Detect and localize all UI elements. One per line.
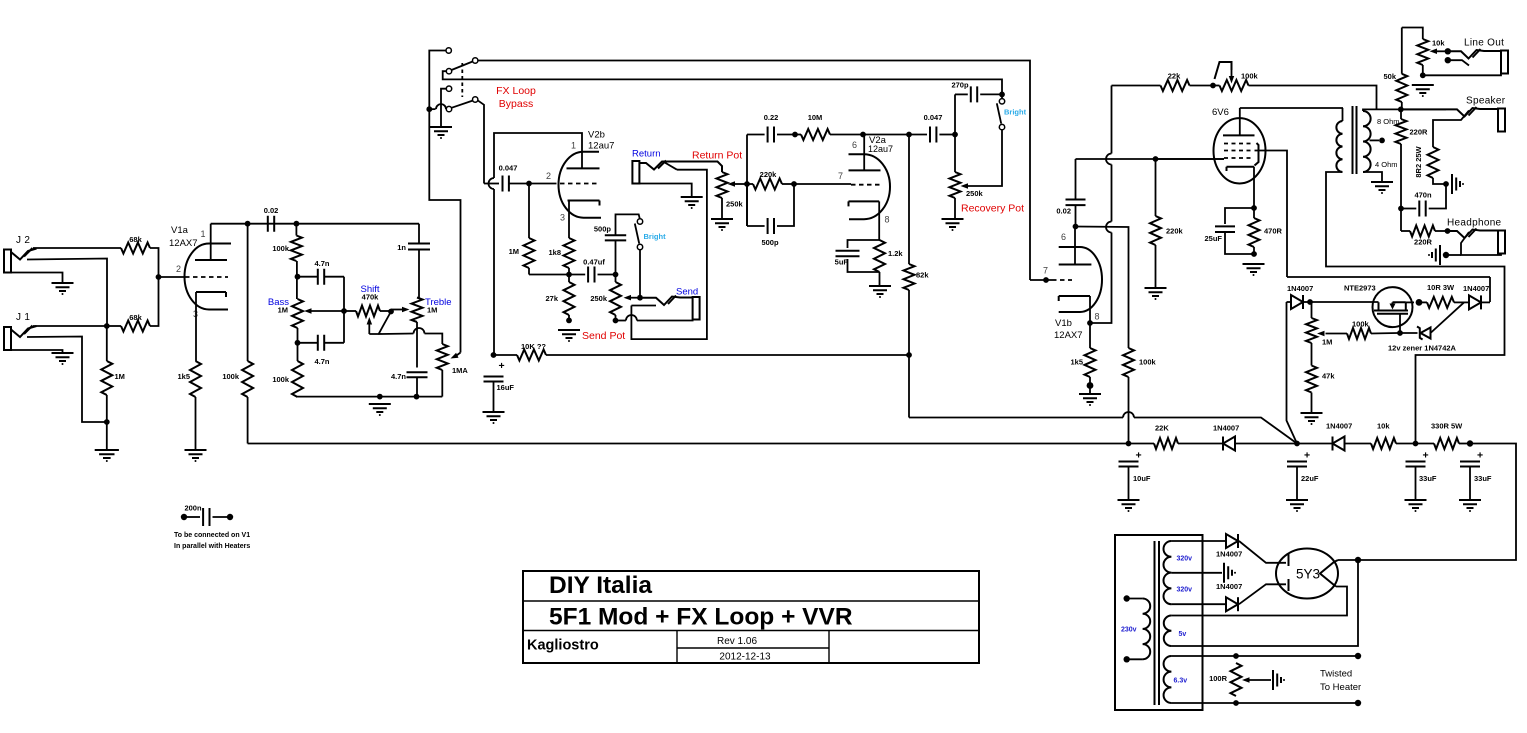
ground 220k	[1145, 288, 1167, 296]
wire V1b cathode	[1089, 296, 1091, 323]
ground send pot	[558, 330, 580, 338]
wire return sleeve to ground	[639, 184, 691, 197]
transformer OT primary	[1342, 108, 1344, 121]
node return wiper	[744, 181, 750, 187]
node 33uF 1	[1413, 441, 1419, 447]
svg-text:470k: 470k	[362, 293, 380, 302]
wire B+ preamp feed node	[491, 352, 497, 358]
OT core	[1353, 106, 1357, 174]
node 10k ground	[1420, 72, 1426, 78]
svg-text:2: 2	[546, 171, 551, 181]
resistor 27k	[568, 275, 570, 283]
capacitor 1n	[418, 224, 420, 243]
node 22uF / raw B+	[1294, 441, 1300, 447]
node 1k5 ground	[1087, 382, 1094, 389]
svg-text:+: +	[1477, 450, 1483, 462]
svg-text:+: +	[1136, 450, 1142, 462]
capacitor 0.22	[747, 134, 765, 136]
svg-text:1N4007: 1N4007	[1326, 422, 1352, 431]
wire 68k bottom to grid node	[150, 277, 159, 326]
wire bass bottom	[297, 328, 299, 343]
wire 1MA bottom to bus	[441, 370, 443, 397]
wire J2 sleeve to ground	[11, 273, 63, 283]
node 270p / bright2	[999, 92, 1005, 98]
resistor 8R2 25W dummy load	[1428, 147, 1439, 178]
transformer PT case	[1115, 535, 1203, 710]
svg-text:1M: 1M	[427, 306, 437, 315]
wire to bass node	[296, 261, 298, 299]
switch FX bypass contact T3	[446, 69, 451, 74]
svg-text:6.3v: 6.3v	[1174, 678, 1188, 685]
node MOSFET drain	[1416, 299, 1423, 306]
svg-text:220R: 220R	[1410, 128, 1429, 137]
wire V1a cathode to 1k5	[195, 292, 197, 361]
svg-text:4.7n: 4.7n	[314, 357, 329, 366]
svg-text:1N4007: 1N4007	[1216, 582, 1242, 591]
svg-text:Bright: Bright	[644, 232, 667, 241]
wire J2 shorting contact down to J1 node	[27, 259, 107, 327]
switch FX bypass contact B1	[446, 86, 451, 91]
capacitor 4.7n (upper)	[318, 269, 324, 285]
6V6 screen grids dashed	[1224, 144, 1254, 151]
PT 5v winding	[1164, 616, 1172, 647]
potentiometer Treble 1M	[412, 298, 423, 323]
node 6V6 cathode network top	[1251, 205, 1257, 211]
wire 4.7n caps junction vertical	[343, 277, 345, 343]
svg-text:Headphone: Headphone	[1447, 218, 1502, 229]
node send pot bottom	[613, 318, 619, 324]
wire wiper node vertical	[746, 135, 748, 227]
resistor 470R	[1249, 218, 1260, 247]
wire MOSFET drain out	[1406, 301, 1414, 303]
switch FX bypass contact B3	[446, 106, 451, 111]
svg-text:10k: 10k	[1432, 39, 1445, 48]
svg-text:1MA: 1MA	[452, 366, 468, 375]
node bass wiper	[341, 308, 347, 314]
svg-text:16uF: 16uF	[497, 383, 515, 392]
wire diode to 5Y3 plate 1	[1239, 541, 1286, 563]
PT HV secondary	[1164, 541, 1172, 604]
node recovery pot top	[952, 132, 958, 138]
node send pot top	[613, 272, 619, 278]
wire return ring diagonal	[663, 162, 677, 170]
1MA wiper from FX bypass	[457, 353, 461, 356]
wire 5v bottom to output node	[1171, 560, 1358, 646]
svg-text:5v: 5v	[1179, 631, 1187, 638]
svg-text:5F1 Mod + FX Loop + VVR: 5F1 Mod + FX Loop + VVR	[549, 604, 853, 631]
ground 33uF 1	[1405, 500, 1427, 508]
Return pot wiper	[733, 183, 747, 185]
wire line out ring	[1448, 60, 1469, 65]
capacitor 4.7n (lower)	[318, 335, 324, 351]
capacitor 10uF	[1119, 462, 1139, 467]
svg-text:Rev 1.06: Rev 1.06	[717, 636, 757, 647]
svg-text:8: 8	[885, 215, 890, 225]
wire treble node to 1MA top	[379, 333, 414, 336]
node V2b grid	[526, 181, 532, 187]
potentiometer 10k (line out)	[1417, 39, 1428, 65]
Send wiper arrow	[629, 297, 640, 299]
svg-text:220k: 220k	[1166, 227, 1184, 236]
wire 6V6 plate to OT primary	[1240, 107, 1343, 109]
title block	[523, 571, 979, 663]
wire B+ preamp feed to 82k node	[546, 354, 909, 356]
ground 10uF	[1118, 500, 1140, 508]
potentiometer Shift 470k	[344, 310, 356, 312]
node 0.02 / 100k tone	[294, 221, 300, 227]
svg-text:V2b: V2b	[588, 130, 605, 141]
resistor 10R 3W	[1419, 301, 1427, 303]
svg-text:Return Pot: Return Pot	[692, 150, 742, 162]
resistor 10K ??	[494, 354, 518, 356]
svg-text:470R: 470R	[1264, 227, 1283, 236]
wire V2a plate up	[863, 135, 865, 171]
resistor 1k5 (V1a cathode)	[190, 361, 201, 397]
node headphone tip	[1445, 228, 1451, 234]
svg-text:100k: 100k	[272, 375, 290, 384]
wire B+ to V2b plate (hump over grid wire)	[493, 189, 495, 355]
switch gang dashed link	[461, 63, 463, 97]
wire B1 to ground	[441, 89, 446, 126]
svg-text:68k: 68k	[129, 313, 142, 322]
potentiometer Send 250k	[610, 282, 621, 315]
node V1b plate	[1073, 224, 1079, 230]
capacitor 33uF (1)	[1406, 462, 1426, 467]
wire grid into tube	[1030, 279, 1052, 281]
wire OT primary bottom to VVR B+	[1326, 172, 1505, 444]
resistor 82k	[906, 132, 912, 138]
wire 6V6 grid entry	[1156, 158, 1225, 160]
svg-text:J 2: J 2	[16, 235, 30, 246]
svg-text:68k: 68k	[129, 235, 142, 244]
wire grid to tube	[794, 183, 851, 185]
node send wiper	[637, 295, 643, 301]
ground 6V6 cathode	[1243, 264, 1265, 272]
svg-text:100k: 100k	[1352, 320, 1370, 329]
wire V1b plate to 100k load	[1076, 227, 1129, 349]
svg-text:1M: 1M	[278, 306, 288, 315]
svg-text:470n: 470n	[1414, 191, 1432, 200]
svg-text:1M: 1M	[509, 247, 519, 256]
node line out tip	[1445, 48, 1451, 54]
resistor 1k8 (V2b cathode)	[564, 238, 575, 268]
capacitor 0.02 (coupling)	[1075, 159, 1077, 200]
capacitor 0.047 (V2b grid)	[484, 183, 499, 185]
svg-text:Speaker: Speaker	[1466, 96, 1506, 107]
svg-text:FX Loop: FX Loop	[496, 85, 536, 97]
wire HV bottom to diode	[1171, 603, 1226, 605]
svg-text:0.47uf: 0.47uf	[583, 258, 605, 267]
node 27k bottom	[566, 318, 572, 324]
wire J1 tip to node	[33, 325, 107, 327]
node secondary / 50k / speaker	[1398, 107, 1404, 113]
svg-text:1k5: 1k5	[177, 372, 190, 381]
svg-text:6: 6	[852, 140, 857, 150]
svg-text:12AX7: 12AX7	[1054, 330, 1083, 341]
node bus ground tap	[377, 394, 383, 400]
capacitor 25uF	[1225, 208, 1254, 224]
svg-text:Return: Return	[632, 149, 661, 160]
capacitor 16uF	[484, 377, 504, 382]
wire V2b cathode	[568, 201, 570, 239]
svg-text:To be connected on V1: To be connected on V1	[174, 532, 250, 539]
svg-text:7: 7	[1043, 266, 1048, 276]
resistor 50k (line out)	[1401, 28, 1403, 74]
wire VVR top bus	[1287, 276, 1490, 278]
svg-text:320v: 320v	[1177, 556, 1193, 563]
svg-text:1.2k: 1.2k	[888, 249, 903, 258]
resistor 1.2k (V2a cathode)	[874, 240, 885, 272]
svg-text:1N4007: 1N4007	[1213, 424, 1239, 433]
wire V1a plate up	[210, 224, 212, 260]
svg-text:22K: 22K	[1155, 424, 1169, 433]
potentiometer Recovery 250k	[950, 172, 961, 198]
wire 1k5 to ground	[195, 397, 197, 449]
svg-text:3: 3	[560, 213, 565, 223]
Shift wiper	[368, 322, 370, 334]
ground tone stack	[369, 404, 391, 412]
node gate	[1397, 330, 1403, 336]
wire V1b plate up	[1074, 227, 1076, 265]
svg-text:Line Out: Line Out	[1464, 38, 1504, 49]
5Y3 filament	[1320, 560, 1338, 587]
wire 6.3v top heater	[1171, 655, 1358, 657]
svg-text:In parallel with Heaters: In parallel with Heaters	[174, 543, 250, 550]
wire 6V6 cathode down	[1253, 167, 1255, 208]
wire 100k load to B+ rail	[247, 397, 249, 444]
ground V1a cathode	[185, 450, 207, 458]
capacitor 5uF	[848, 240, 880, 248]
svg-text:1M: 1M	[1322, 338, 1332, 347]
svg-text:0.02: 0.02	[1056, 207, 1071, 216]
wire V1a grid	[159, 276, 185, 278]
1M wiper	[1317, 331, 1325, 336]
svg-text:10K ??: 10K ??	[521, 342, 546, 351]
svg-text:+: +	[499, 360, 505, 372]
resistor 47k	[1306, 366, 1317, 393]
100R wiper to ground	[1247, 679, 1271, 681]
svg-text:+: +	[1304, 450, 1310, 462]
svg-text:0.047: 0.047	[499, 164, 518, 173]
wire 10M to V2a plate node	[830, 134, 927, 136]
wire 82k down to screen feed	[908, 290, 910, 418]
svg-text:V1a: V1a	[171, 225, 189, 236]
resistor 10M	[801, 129, 830, 140]
wire T1 to junction and 1MA wiper	[429, 51, 460, 353]
resistor 68k (J1)	[107, 325, 121, 327]
svg-text:To Heater: To Heater	[1320, 682, 1361, 693]
capacitor 22uF	[1287, 462, 1307, 467]
wire send ring contact	[631, 305, 656, 307]
node treble wiper	[388, 309, 394, 315]
ground J1	[52, 353, 74, 361]
svg-text:33uF: 33uF	[1474, 474, 1492, 483]
ground V1b cathode	[1079, 394, 1101, 402]
ground recovery pot	[942, 219, 964, 227]
node 5Y3 output	[1355, 557, 1361, 563]
wire 6.3v bottom heater	[1171, 702, 1358, 704]
capacitor 4.7n (treble)	[407, 372, 428, 377]
wire bright to send wiper node	[639, 250, 641, 298]
svg-text:250k: 250k	[726, 200, 744, 209]
wire raw B+ up from 22uF node	[1287, 302, 1298, 444]
wire 5v top to filament	[1171, 587, 1347, 616]
resistor 220R (headphone)	[1400, 209, 1402, 232]
ground FX switch	[430, 127, 452, 135]
wire rail from 22uF right	[1297, 443, 1333, 445]
node NFB pot	[1210, 83, 1216, 89]
resistor 220k (6V6 grid leak)	[1155, 159, 1157, 216]
wire J1 shorting contact to 1M bottom	[27, 337, 107, 423]
svg-text:NTE2973: NTE2973	[1344, 284, 1376, 293]
svg-text:50k: 50k	[1383, 72, 1396, 81]
wire zener to diode junction diagonal	[1431, 302, 1465, 333]
switch FX bypass contact T2	[473, 58, 478, 63]
wire 68k top to grid node	[150, 248, 159, 277]
resistor 68k (J2)	[121, 243, 150, 254]
wire 50k top to 10k pot	[1402, 28, 1423, 40]
wire to MOSFET source	[1310, 301, 1379, 303]
node cathode network bottom	[1251, 251, 1257, 257]
resistor 100k (V1a plate load)	[247, 224, 249, 361]
wire NFB vertical (humps)	[1111, 86, 1113, 154]
resistor 100k (tone upper)	[295, 224, 297, 236]
svg-text:Bright: Bright	[1004, 108, 1027, 117]
potentiometer Return 250k	[717, 172, 728, 198]
svg-text:12v zener 1N4742A: 12v zener 1N4742A	[1388, 344, 1457, 353]
svg-text:7: 7	[838, 171, 843, 181]
node line out ring	[1445, 57, 1451, 63]
node J1 input	[104, 323, 110, 329]
resistor 22K	[1154, 438, 1178, 449]
svg-text:1N4007: 1N4007	[1216, 550, 1242, 559]
capacitor 0.047 (recovery out)	[930, 127, 936, 143]
node 6V6 grid / 220k	[1153, 156, 1159, 162]
PT core	[1155, 541, 1160, 705]
svg-text:5Y3: 5Y3	[1296, 567, 1320, 582]
ground 33uF 2	[1459, 500, 1481, 508]
svg-text:22uF: 22uF	[1301, 474, 1319, 483]
wire screen feed from 82k (hump over 100k)	[909, 417, 1123, 419]
wire 500p to bright switch	[616, 214, 640, 235]
svg-text:0.047: 0.047	[924, 113, 943, 122]
wire 6V6 screen to VVR output	[1255, 151, 1288, 278]
wire tone bottom bus	[298, 396, 443, 398]
wire treble bottom	[416, 322, 418, 368]
potentiometer Bass 1M	[292, 299, 303, 328]
wire send ring to return ring loop	[631, 170, 707, 339]
svg-text:47k: 47k	[1322, 372, 1335, 381]
capacitor 500p (FX)	[746, 184, 748, 226]
node V1b cathode	[1087, 320, 1093, 326]
svg-text:1N4007: 1N4007	[1287, 284, 1313, 293]
svg-text:4 Ohm: 4 Ohm	[1375, 160, 1398, 169]
svg-text:10R 3W: 10R 3W	[1427, 283, 1455, 292]
svg-text:1n: 1n	[397, 243, 406, 252]
svg-text:25uF: 25uF	[1204, 234, 1222, 243]
node 33uF 2	[1467, 440, 1473, 446]
resistor 1k5 (V1b cathode)	[1089, 323, 1091, 348]
node V1a grid	[156, 274, 162, 280]
switch FX bypass contact B2	[473, 97, 478, 102]
bright lever	[635, 224, 639, 244]
node V1b grid	[1043, 277, 1049, 283]
svg-text:100k: 100k	[1241, 72, 1259, 81]
switch lever lower	[452, 101, 473, 108]
wire T2 to V1b grid (FX bypass line)	[478, 61, 1030, 281]
wire 1M to 47k	[1311, 343, 1313, 366]
capacitor 500p (bright send)	[615, 241, 617, 275]
wire speaker ring to 8R2	[1433, 111, 1469, 148]
node VVR divider top	[1307, 299, 1313, 305]
transformer OT secondary	[1363, 111, 1371, 172]
wire T3 to recovery bright node	[443, 71, 1002, 92]
node V2a grid	[791, 181, 797, 187]
wire 100k load to B+ rail	[1128, 377, 1130, 444]
svg-text:270p: 270p	[951, 81, 969, 90]
resistor 100k (VVR)	[1371, 332, 1400, 335]
switch Bright (send) contacts	[637, 219, 642, 224]
svg-text:4.7n: 4.7n	[391, 372, 406, 381]
wire OT secondary top	[1363, 109, 1446, 111]
svg-text:0.22: 0.22	[764, 113, 779, 122]
ground input	[95, 450, 119, 458]
wire shift to treble node	[380, 310, 391, 312]
svg-text:1: 1	[201, 229, 206, 239]
wire NFB to secondary	[1249, 86, 1377, 110]
wire 10k bottom to jack sleeve	[1423, 65, 1501, 75]
capacitor 0.02 (tone)	[268, 216, 274, 232]
wire rail to rectifier	[1358, 444, 1516, 561]
ground J2	[52, 283, 74, 291]
node bass bottom	[295, 340, 301, 346]
svg-text:2012-12-13: 2012-12-13	[719, 652, 771, 663]
Bass wiper	[310, 310, 344, 312]
svg-text:8R2 25W: 8R2 25W	[1414, 145, 1423, 177]
ground OT	[1371, 182, 1393, 190]
svg-text:8: 8	[1095, 312, 1100, 322]
ground VVR divider	[1301, 413, 1323, 421]
node V2a plate	[860, 132, 866, 138]
node bass top	[295, 274, 301, 280]
resistor 10k (rail)	[1371, 438, 1396, 449]
wire 5Y3 output	[1338, 559, 1358, 561]
svg-text:250k: 250k	[966, 189, 984, 198]
svg-text:330R 5W: 330R 5W	[1431, 422, 1463, 431]
svg-text:DIY Italia: DIY Italia	[549, 572, 652, 599]
switch Bright (recovery)	[1001, 94, 1003, 98]
wire V1a plate rail	[211, 223, 419, 225]
potentiometer 1M (VVR)	[1306, 318, 1317, 343]
node 470n	[1398, 206, 1404, 212]
svg-text:5uF: 5uF	[835, 258, 849, 267]
svg-text:27k: 27k	[545, 294, 558, 303]
node cathode / send bus	[566, 272, 572, 278]
svg-text:Send: Send	[676, 287, 698, 298]
svg-text:100k: 100k	[1139, 358, 1157, 367]
6V6 cathode	[1227, 167, 1255, 171]
resistor 220k (FX mix)	[747, 183, 753, 185]
ground 16uF	[483, 412, 505, 420]
node plate / 100k load	[245, 221, 251, 227]
svg-text:1k8: 1k8	[548, 248, 561, 257]
ground V2a cathode	[869, 286, 891, 294]
PT 6.3v winding	[1164, 656, 1172, 703]
wire 6V6 plate	[1239, 108, 1241, 135]
ground 22uF	[1286, 500, 1308, 508]
wire junction to B3 (hump over B1 ground wire)	[429, 108, 435, 110]
svg-text:320v: 320v	[1177, 587, 1193, 594]
